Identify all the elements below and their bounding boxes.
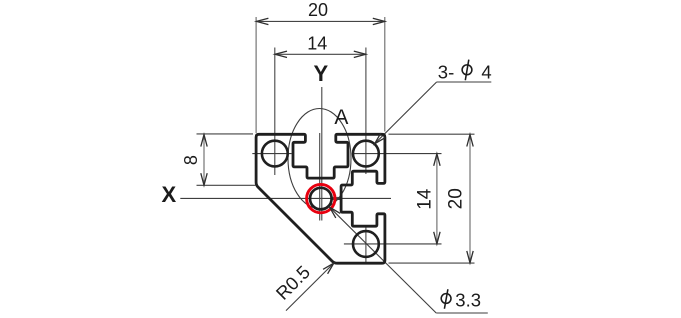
extension line left of 20 top [255, 17, 257, 133]
leader line 3-phi4 [375, 82, 437, 144]
arrow 14-right up [434, 154, 440, 166]
bottom-right hole horizontal centerline / 14 right ext bottom [344, 243, 442, 245]
extension line bottom of 8 [197, 184, 256, 186]
label phi3.3 phi symbol [441, 294, 451, 304]
arrow 14-top right [354, 51, 366, 57]
dim line 14 top [275, 53, 366, 55]
center hole phi3.3 [310, 188, 332, 210]
label underline phi3.3 [436, 312, 488, 314]
svg-text:3.3: 3.3 [455, 290, 481, 311]
extension line top of 8 [197, 133, 254, 135]
arrow leader 3-phi4 [375, 133, 386, 144]
svg-text:20: 20 [446, 188, 467, 209]
top-right hole horizontal centerline / 14 right ext top [352, 153, 442, 155]
arrow leader R0.5 [323, 263, 334, 274]
slit line horizontal upper [331, 196, 342, 198]
arrow 14-top left [275, 51, 287, 57]
label underline 3-phi4 [437, 81, 492, 83]
arrow 20-top right [373, 18, 385, 24]
arrow 14-right down [434, 232, 440, 244]
slit line horizontal lower [331, 199, 342, 201]
arrow 8 down [201, 173, 207, 185]
label 3-phi4 phi symbol [462, 65, 472, 75]
extension line left of 14 top / hole centerline [274, 48, 276, 176]
dim line 14 right [436, 154, 438, 244]
svg-text:3-: 3- [438, 61, 454, 82]
detail circle A (ellipse) [288, 109, 351, 209]
Y axis centerline [321, 87, 323, 221]
hole top-right phi4 [353, 141, 379, 167]
bottom-right hole vertical centerline [365, 226, 367, 263]
svg-text:20: 20 [308, 0, 328, 20]
arrow 20-top left [256, 18, 268, 24]
extrusion profile outline [256, 134, 385, 263]
slit line left [319, 133, 321, 221]
dim line 20 top [256, 20, 384, 22]
red highlight ring [307, 184, 335, 212]
arrow 8 up [201, 135, 207, 147]
top-left hole horizontal centerline [252, 153, 291, 155]
arrow 20-right up [467, 135, 473, 147]
svg-text:4: 4 [481, 61, 491, 82]
svg-text:A: A [334, 106, 348, 129]
hole top-left phi4 [262, 141, 288, 167]
svg-text:14: 14 [307, 34, 327, 54]
arrow leader phi3.3 [330, 207, 341, 218]
leader line phi3.3 [330, 207, 437, 313]
arrow 20-right down [467, 251, 473, 263]
extension line right of 14 top / hole centerline [365, 48, 367, 175]
svg-text:8: 8 [181, 155, 201, 165]
svg-text:X: X [161, 182, 176, 207]
hole bottom-right phi4 [353, 231, 379, 257]
dim line 20 right [469, 135, 471, 263]
extension line bottom of 20 right [389, 262, 475, 264]
svg-text:Y: Y [314, 61, 329, 86]
X axis centerline [180, 197, 391, 199]
svg-text:14: 14 [414, 188, 435, 210]
leader line R0.5 [286, 263, 334, 311]
extension line top of 20 right [389, 133, 475, 135]
dim line 8 left [203, 135, 205, 186]
extension line right of 20 top [384, 17, 386, 132]
